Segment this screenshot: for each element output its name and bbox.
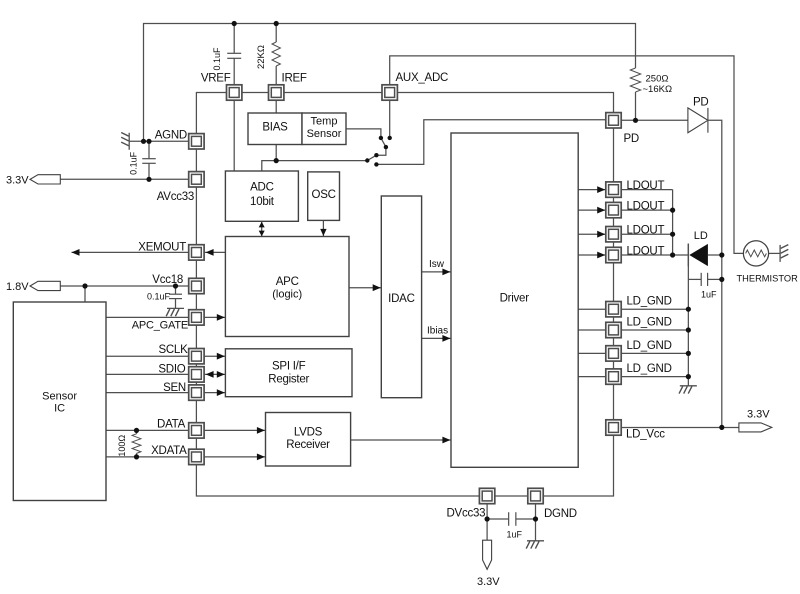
- svg-text:PD: PD: [693, 97, 708, 109]
- svg-text:IREF: IREF: [282, 73, 307, 85]
- svg-text:Register: Register: [268, 374, 309, 386]
- svg-text:LDOUT: LDOUT: [627, 180, 665, 192]
- svg-text:LVDS: LVDS: [294, 427, 323, 439]
- svg-text:3.3V: 3.3V: [477, 576, 500, 588]
- svg-text:IC: IC: [54, 403, 65, 415]
- svg-text:LD_GND: LD_GND: [627, 316, 672, 328]
- svg-text:Sensor: Sensor: [42, 390, 77, 402]
- svg-text:DVcc33: DVcc33: [447, 508, 486, 520]
- svg-text:OSC: OSC: [312, 189, 336, 201]
- svg-text:0.1uF: 0.1uF: [147, 292, 171, 302]
- svg-text:22KΩ: 22KΩ: [256, 45, 267, 69]
- svg-text:0.1uF: 0.1uF: [129, 151, 139, 175]
- svg-text:Receiver: Receiver: [286, 439, 330, 451]
- svg-text:SEN: SEN: [163, 382, 186, 394]
- svg-text:APC_GATE: APC_GATE: [132, 320, 188, 332]
- svg-text:LD_GND: LD_GND: [627, 363, 672, 375]
- svg-text:100Ω: 100Ω: [117, 435, 127, 457]
- svg-text:AUX_ADC: AUX_ADC: [396, 72, 449, 84]
- svg-text:3.3V: 3.3V: [6, 175, 29, 187]
- svg-text:IDAC: IDAC: [388, 293, 414, 305]
- svg-text:BIAS: BIAS: [262, 121, 288, 133]
- svg-text:APC: APC: [276, 276, 299, 288]
- svg-text:3.3V: 3.3V: [747, 409, 770, 421]
- svg-text:LDOUT: LDOUT: [627, 245, 665, 257]
- svg-text:Sensor: Sensor: [307, 128, 342, 140]
- svg-text:XEMOUT: XEMOUT: [138, 242, 186, 254]
- svg-text:10bit: 10bit: [250, 196, 275, 208]
- svg-text:1uF: 1uF: [507, 530, 523, 540]
- svg-text:1uF: 1uF: [701, 290, 717, 300]
- svg-text:XDATA: XDATA: [151, 445, 187, 457]
- svg-text:~16KΩ: ~16KΩ: [643, 84, 673, 95]
- svg-text:SDIO: SDIO: [158, 364, 185, 376]
- svg-text:LD_GND: LD_GND: [627, 340, 672, 352]
- svg-text:LD_GND: LD_GND: [627, 296, 672, 308]
- svg-text:SCLK: SCLK: [158, 344, 188, 356]
- svg-text:ADC: ADC: [250, 181, 274, 193]
- svg-text:AVcc33: AVcc33: [157, 191, 194, 203]
- svg-text:LD_Vcc: LD_Vcc: [626, 429, 665, 441]
- svg-text:Driver: Driver: [500, 293, 530, 305]
- svg-text:Vcc18: Vcc18: [152, 274, 183, 286]
- svg-text:LDOUT: LDOUT: [627, 225, 665, 237]
- svg-text:LD: LD: [694, 230, 708, 242]
- svg-text:Temp: Temp: [311, 115, 338, 127]
- svg-text:Ibias: Ibias: [427, 326, 448, 337]
- svg-text:(logic): (logic): [272, 288, 302, 300]
- svg-text:1.8V: 1.8V: [6, 281, 29, 293]
- svg-text:Isw: Isw: [429, 259, 445, 270]
- svg-text:VREF: VREF: [201, 73, 231, 85]
- svg-text:DGND: DGND: [544, 508, 577, 520]
- svg-text:THERMISTOR: THERMISTOR: [737, 273, 799, 283]
- svg-text:SPI I/F: SPI I/F: [272, 361, 306, 373]
- svg-text:PD: PD: [624, 133, 639, 145]
- svg-text:AGND: AGND: [155, 130, 187, 142]
- svg-text:LDOUT: LDOUT: [627, 201, 665, 213]
- svg-text:DATA: DATA: [157, 419, 186, 431]
- svg-text:0.1uF: 0.1uF: [212, 47, 222, 71]
